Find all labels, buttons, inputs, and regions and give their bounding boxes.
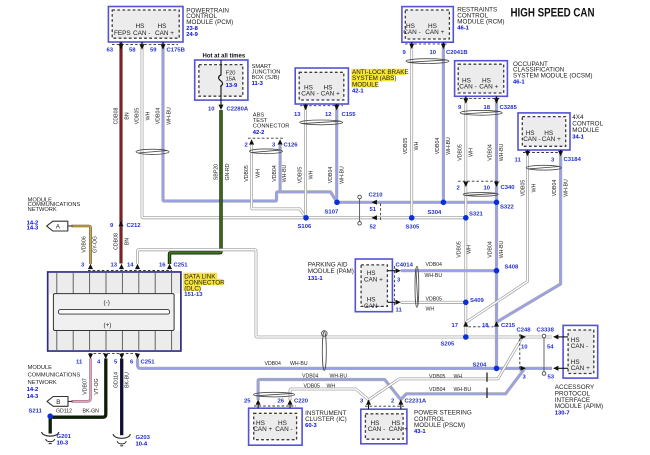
title HIGH SPEED CAN xyxy=(511,6,595,20)
svg-text:14-2: 14-2 xyxy=(27,387,39,393)
svg-text:MODULE (RCM): MODULE (RCM) xyxy=(457,18,504,25)
svg-text:GD114: GD114 xyxy=(114,372,120,388)
module PSCM (Power Steering Control Module) xyxy=(360,398,472,444)
ground G201 xyxy=(42,432,72,447)
wire CDB08 BN from PCM pin 63 to DLC pin 13 xyxy=(120,43,123,264)
svg-text:CAN -: CAN - xyxy=(523,136,540,143)
rotated wire labels above DLC xyxy=(82,233,131,253)
svg-text:CONNECTOR: CONNECTOR xyxy=(253,124,290,130)
svg-text:WH: WH xyxy=(414,141,420,150)
svg-text:B: B xyxy=(56,399,60,406)
svg-text:MODULE (PCM): MODULE (PCM) xyxy=(186,19,233,26)
wire GD114 BK-BU from DLC pin 5 to ground G203 xyxy=(120,359,123,436)
module APIM (Accessory Protocol Interface Module) xyxy=(553,325,603,416)
svg-text:46-1: 46-1 xyxy=(513,80,525,86)
svg-text:WH-BU: WH-BU xyxy=(454,387,472,393)
svg-text:18: 18 xyxy=(484,105,491,111)
wire VDB04 WH-BU from PAM pin 3 to S408 xyxy=(401,269,497,272)
svg-text:14-3: 14-3 xyxy=(27,226,39,232)
svg-text:14: 14 xyxy=(127,263,134,269)
svg-text:13: 13 xyxy=(294,112,301,118)
labels on PAM wires xyxy=(425,262,443,313)
node A module communications network xyxy=(27,197,81,231)
wire VDB04 WH-BU from ABS module pin 12 to S107 xyxy=(335,104,338,202)
svg-text:BK-BU: BK-BU xyxy=(125,372,131,388)
module OCSM (Occupant Classification System Module) xyxy=(455,61,593,111)
splice S205 xyxy=(441,334,469,348)
svg-text:CAN +: CAN + xyxy=(364,277,383,284)
svg-text:Hot at all times: Hot at all times xyxy=(203,54,246,60)
svg-text:C4014: C4014 xyxy=(396,262,414,268)
module PAM (Parking Aid Module) xyxy=(308,259,414,314)
svg-text:VT-OG: VT-OG xyxy=(94,378,100,394)
wire VDB04 WH-BU from IC pin 25 right to PSCM pin 2 then to C248 pin 3 xyxy=(258,369,524,400)
in-line connector C340 xyxy=(457,181,516,191)
splice S321 xyxy=(463,212,483,221)
svg-text:WH-BU: WH-BU xyxy=(282,164,288,182)
svg-text:VDB04: VDB04 xyxy=(302,374,319,380)
rotated wire labels below RCM xyxy=(403,137,452,155)
wire VDB05 WH from DLC pin 14 up and right, down, then white bus to S205, C248 pin 10, APIM HS CAN- xyxy=(138,250,553,337)
rotated wire labels below 4X4 xyxy=(521,179,570,197)
svg-text:58: 58 xyxy=(129,48,136,54)
splice S107 xyxy=(325,200,340,216)
svg-text:11: 11 xyxy=(76,360,83,366)
svg-text:C210: C210 xyxy=(369,193,384,199)
svg-text:GN-RD: GN-RD xyxy=(225,163,231,180)
svg-text:VDB04: VDB04 xyxy=(328,167,334,184)
svg-text:CAN +: CAN + xyxy=(542,136,561,143)
svg-text:VDB04: VDB04 xyxy=(265,361,282,367)
svg-text:WH: WH xyxy=(426,307,435,313)
svg-text:VDB06: VDB06 xyxy=(82,236,88,253)
svg-text:WH: WH xyxy=(309,170,315,179)
svg-text:C2041B: C2041B xyxy=(446,50,468,56)
svg-text:S205: S205 xyxy=(441,342,455,348)
in-line connector C210 xyxy=(358,193,384,231)
svg-text:NETWORK: NETWORK xyxy=(28,207,57,213)
svg-text:13-9: 13-9 xyxy=(226,83,238,89)
svg-text:VDB05: VDB05 xyxy=(403,138,409,155)
svg-text:C175B: C175B xyxy=(167,48,185,54)
svg-text:VDB04: VDB04 xyxy=(488,144,494,161)
svg-text:C2280A: C2280A xyxy=(227,107,249,113)
rotated wire labels SBP20 GN-RD xyxy=(214,163,232,180)
svg-text:46-1: 46-1 xyxy=(457,25,469,31)
twisted pair marker below 4X4 module xyxy=(526,165,561,170)
labels on VDB04 bottom bus xyxy=(265,361,308,367)
svg-text:S305: S305 xyxy=(406,224,420,230)
svg-text:17: 17 xyxy=(452,323,459,329)
svg-text:VDB05: VDB05 xyxy=(304,383,321,389)
svg-text:G201: G201 xyxy=(57,434,72,440)
svg-text:12: 12 xyxy=(325,112,332,118)
svg-text:VDB05: VDB05 xyxy=(298,167,304,184)
splice S106 xyxy=(298,215,312,230)
svg-text:S204: S204 xyxy=(473,363,487,369)
svg-text:CAN -: CAN - xyxy=(403,29,420,36)
svg-text:10: 10 xyxy=(208,107,215,113)
svg-text:(DLC): (DLC) xyxy=(184,285,201,292)
svg-text:S321: S321 xyxy=(469,212,483,218)
svg-text:WH-BU: WH-BU xyxy=(499,143,505,161)
svg-text:10: 10 xyxy=(484,185,491,191)
svg-text:VDB04: VDB04 xyxy=(435,138,441,155)
svg-text:CLUSTER (IC): CLUSTER (IC) xyxy=(305,416,347,423)
svg-text:WH-BU: WH-BU xyxy=(446,137,452,155)
twist tick on VDB05 line right side xyxy=(486,373,488,382)
splice S305 xyxy=(406,215,420,230)
svg-text:C3285: C3285 xyxy=(500,105,518,111)
svg-text:COMMUNICATIONS: COMMUNICATIONS xyxy=(28,373,81,379)
DLC yellow highlighted name xyxy=(183,273,225,293)
svg-text:WH: WH xyxy=(469,148,475,157)
svg-text:CAN -: CAN - xyxy=(275,426,292,433)
rotated wire labels between S321 and S409 xyxy=(457,240,506,258)
svg-text:VDB05: VDB05 xyxy=(429,374,446,380)
svg-text:CAN -: CAN - xyxy=(133,30,150,37)
svg-text:VDB04: VDB04 xyxy=(426,262,443,268)
svg-text:16: 16 xyxy=(159,263,166,269)
fuse box SJB with fuse F20 xyxy=(195,54,281,113)
svg-text:WH: WH xyxy=(146,111,152,120)
svg-text:53: 53 xyxy=(548,375,555,381)
rotated wire labels below OCSM xyxy=(458,143,506,161)
svg-text:GY-OG: GY-OG xyxy=(93,236,99,253)
labels on VDB05 PSCM-C248 line xyxy=(429,374,462,380)
svg-text:52: 52 xyxy=(370,224,377,230)
svg-text:WH: WH xyxy=(467,245,473,254)
svg-text:CAN +: CAN + xyxy=(155,30,174,37)
svg-text:11: 11 xyxy=(515,158,522,164)
svg-text:CAN -: CAN - xyxy=(364,303,381,310)
splice S304 xyxy=(428,200,447,216)
svg-text:S107: S107 xyxy=(325,210,339,216)
svg-text:42-1: 42-1 xyxy=(352,89,364,95)
twisted pair marker below ABS module xyxy=(300,120,343,125)
module PCM (Powertrain Control Module) xyxy=(107,7,234,54)
module IC (Instrument Cluster) xyxy=(244,398,347,445)
ground G203 xyxy=(113,434,151,447)
svg-text:C2231A: C2231A xyxy=(405,398,427,404)
svg-text:S106: S106 xyxy=(298,224,312,230)
svg-text:C3338: C3338 xyxy=(537,328,555,334)
label GD112 BK-GN xyxy=(56,409,99,415)
svg-text:S408: S408 xyxy=(505,264,519,270)
svg-text:S409: S409 xyxy=(470,298,484,304)
svg-text:WH-BU: WH-BU xyxy=(330,374,348,380)
svg-text:VDB04: VDB04 xyxy=(429,387,446,393)
svg-text:C3184: C3184 xyxy=(564,157,582,163)
wire VDB04 WH-BU from RCM pin 10 to S304 xyxy=(442,43,445,203)
module 4X4 control module xyxy=(515,113,604,164)
svg-text:CAN +: CAN + xyxy=(571,365,590,372)
rotated wire labels below ABS xyxy=(298,166,346,184)
wire VDB04 WH-BU from 4X4 pin 3 down then diagonal to C215 pin 18 xyxy=(497,150,560,321)
svg-text:10-4: 10-4 xyxy=(136,441,148,447)
svg-text:11-3: 11-3 xyxy=(252,81,264,87)
svg-text:SYSTEM MODULE (OCSM): SYSTEM MODULE (OCSM) xyxy=(513,73,592,80)
splice S204 xyxy=(473,363,500,372)
svg-text:WH-BU: WH-BU xyxy=(499,240,505,258)
svg-text:HIGH SPEED CAN: HIGH SPEED CAN xyxy=(511,6,595,20)
wire VDB05 WH from PAM pin 11 to S409 xyxy=(401,301,466,304)
svg-text:63: 63 xyxy=(107,48,114,54)
wire VDB05 WH from OCSM pin 9 through C340 pin 2, S321, S409, C215 pin 17 to S205 xyxy=(464,97,467,337)
svg-text:BN: BN xyxy=(125,112,131,119)
svg-text:CDB08: CDB08 xyxy=(114,108,120,125)
connector DLC (Data Link Connector) xyxy=(48,272,204,351)
svg-text:CAN +: CAN + xyxy=(253,426,272,433)
svg-text:59: 59 xyxy=(150,48,157,54)
svg-text:C155: C155 xyxy=(342,112,357,118)
twisted pair marker on bus pair (vertical loop at x=324) xyxy=(322,331,328,371)
svg-text:11: 11 xyxy=(396,308,403,314)
svg-text:151-13: 151-13 xyxy=(184,292,203,298)
module ABS (Anti-Lock Brake System) xyxy=(294,68,409,118)
svg-text:FEPS: FEPS xyxy=(114,30,131,37)
wire VDB05 WH from ABS test connector C126 pin 2 to S106 xyxy=(252,145,306,218)
wire VDB07 VT-OG from DLC pin 11 to arrow B xyxy=(72,359,91,402)
splice S408 xyxy=(494,264,519,273)
svg-text:VDB05: VDB05 xyxy=(457,241,463,258)
svg-text:WH: WH xyxy=(532,183,538,192)
svg-text:CAN +: CAN + xyxy=(479,83,498,90)
svg-text:CAN -: CAN - xyxy=(368,426,385,433)
svg-text:54: 54 xyxy=(547,345,554,351)
svg-text:C251: C251 xyxy=(174,263,189,269)
wire VDB05 WH from ABS module pin 13 to S106 xyxy=(304,104,307,217)
twisted pair marker below OCSM xyxy=(460,110,502,115)
in-line connector C215 xyxy=(452,321,516,329)
svg-text:VDB05: VDB05 xyxy=(135,108,141,125)
svg-text:WH-BU: WH-BU xyxy=(290,361,308,367)
in-line connector C248 xyxy=(517,328,532,381)
svg-text:C215: C215 xyxy=(501,323,516,329)
svg-text:CAN +: CAN + xyxy=(425,29,444,36)
svg-text:G203: G203 xyxy=(136,435,151,441)
svg-text:VDB05: VDB05 xyxy=(521,180,527,197)
svg-text:WH-BU: WH-BU xyxy=(425,273,443,279)
svg-text:34-1: 34-1 xyxy=(572,134,584,140)
svg-text:WH-BU: WH-BU xyxy=(167,107,173,125)
svg-text:VDB05: VDB05 xyxy=(244,165,250,182)
svg-text:(-): (-) xyxy=(104,300,110,307)
svg-text:25: 25 xyxy=(244,398,251,404)
svg-text:60-3: 60-3 xyxy=(305,423,317,429)
twisted pair marker below C126 xyxy=(250,149,283,154)
svg-text:VDB04: VDB04 xyxy=(552,180,558,197)
svg-text:S322: S322 xyxy=(500,205,514,211)
svg-text:13: 13 xyxy=(111,263,118,269)
rotated wire labels below PCM xyxy=(114,107,173,125)
wire S211 to ground G201 xyxy=(49,416,52,434)
wire VDB05 WH from 4X4 pin 11 down then diagonal to C215 pin 17 xyxy=(466,150,527,322)
svg-text:(+): (+) xyxy=(104,322,112,329)
svg-text:VDB04: VDB04 xyxy=(488,241,494,258)
svg-text:GD112: GD112 xyxy=(56,409,72,415)
wire SBP20 GN-RD from SJB fuse to DLC pin 16 xyxy=(170,110,222,264)
svg-text:15A: 15A xyxy=(226,77,236,83)
svg-text:WH-BU: WH-BU xyxy=(564,179,570,197)
svg-text:NETWORK: NETWORK xyxy=(28,380,57,386)
splice S211 xyxy=(29,409,54,419)
splice S322 xyxy=(494,200,515,211)
svg-text:26: 26 xyxy=(278,398,285,404)
svg-text:VDB05: VDB05 xyxy=(426,297,443,303)
connector C251 top of DLC xyxy=(81,263,188,271)
connector C126 ABS test connector xyxy=(245,113,299,149)
module RCM (Restraints Control Module) xyxy=(402,7,505,57)
svg-text:WH: WH xyxy=(327,383,336,389)
svg-text:S211: S211 xyxy=(29,409,43,415)
svg-text:VDB05: VDB05 xyxy=(458,144,464,161)
wire GD112 BK-GN from DLC pin 4 to S211 xyxy=(50,359,106,418)
twist tick on VDB04 line right side xyxy=(486,388,488,398)
svg-text:10: 10 xyxy=(430,50,437,56)
svg-text:14-3: 14-3 xyxy=(27,394,39,400)
rotated wire labels below C126 xyxy=(244,164,288,182)
svg-text:MODULE: MODULE xyxy=(352,82,379,89)
svg-text:SBP20: SBP20 xyxy=(214,164,220,180)
svg-text:10-3: 10-3 xyxy=(57,440,69,446)
twisted pair marker below C340 xyxy=(463,193,498,197)
twisted pair marker above IC xyxy=(254,392,295,397)
svg-text:CAN -: CAN - xyxy=(571,343,588,350)
wire VDB04 WH-BU bus: PCM pin 59 down, right, stair up at C126 stub, to S107 then S304 S322 xyxy=(163,43,496,203)
connector C251 bottom of DLC xyxy=(76,354,155,366)
rotated wire labels below DLC xyxy=(83,372,131,395)
svg-text:WH: WH xyxy=(454,374,463,380)
wire VDB06 GY-OG from arrow A to DLC pin 3 xyxy=(72,226,91,264)
svg-text:BN: BN xyxy=(125,238,131,245)
svg-text:MODULE (PSCM): MODULE (PSCM) xyxy=(414,422,465,429)
svg-text:131-1: 131-1 xyxy=(308,276,324,282)
wire VDB05 WH bus: PCM pin 58 down, right through S106 S305 to S321 xyxy=(142,43,465,218)
svg-text:MODULE (APIM): MODULE (APIM) xyxy=(555,403,603,410)
svg-text:51: 51 xyxy=(370,207,377,213)
in-line connector C3338 xyxy=(537,328,555,381)
wire VDB04 WH-BU from OCSM pin 18 through C340 pin 10, S322, S408, C215 pin 18 to S204 xyxy=(495,97,498,369)
svg-text:MODULE (PAM): MODULE (PAM) xyxy=(308,268,354,275)
splice S409 xyxy=(463,298,484,305)
twisted pair marker below PCM xyxy=(136,149,169,154)
wire VDB05 WH from IC pin 26 right to PSCM pin 3 then up to white bus at C248 pin 10 xyxy=(290,337,522,400)
labels on VDB04 PSCM-C248 line xyxy=(429,387,471,393)
svg-text:10: 10 xyxy=(521,345,528,351)
labels on VDB04 IC-PSCM line xyxy=(302,374,347,380)
svg-text:18: 18 xyxy=(482,323,489,329)
svg-text:C220: C220 xyxy=(294,398,309,404)
svg-text:MODULE: MODULE xyxy=(28,365,53,371)
svg-text:VDB04: VDB04 xyxy=(272,165,278,182)
svg-text:24-9: 24-9 xyxy=(186,32,198,38)
svg-text:WH: WH xyxy=(256,169,262,178)
wire VDB04 WH-BU stub from C126 pin 3 down to blue bus xyxy=(279,145,282,192)
svg-text:CAN -: CAN - xyxy=(459,83,476,90)
labels on VDB05 IC-PSCM line xyxy=(304,383,336,389)
twisted pair marker right of PAM (vertical) xyxy=(415,266,419,307)
svg-text:BK-GN: BK-GN xyxy=(83,409,100,415)
svg-text:CAN +: CAN + xyxy=(389,426,408,433)
svg-text:VDB04: VDB04 xyxy=(156,108,162,125)
svg-text:C248: C248 xyxy=(517,328,532,334)
wire VDB05 WH from RCM pin 9 to S305 xyxy=(410,43,413,218)
svg-text:C340: C340 xyxy=(501,185,516,191)
svg-text:43-1: 43-1 xyxy=(414,429,426,435)
svg-text:CAN +: CAN + xyxy=(321,90,340,97)
in-line connector C212 on CDB08 xyxy=(110,221,141,229)
node B module communications network xyxy=(27,365,81,406)
svg-text:42-2: 42-2 xyxy=(253,130,265,136)
svg-text:C212: C212 xyxy=(127,223,142,229)
svg-text:CAN -: CAN - xyxy=(301,90,318,97)
svg-text:WH-BU: WH-BU xyxy=(340,166,346,184)
wire VDB04 WH-BU from DLC pin 6 right along bottom to S204, C248 pin 3, APIM HS CAN+ xyxy=(138,359,553,369)
svg-text:VDB07: VDB07 xyxy=(83,378,89,395)
svg-text:C251: C251 xyxy=(141,360,156,366)
svg-text:CDB08: CDB08 xyxy=(114,233,120,250)
svg-text:S304: S304 xyxy=(428,210,442,216)
svg-text:130-7: 130-7 xyxy=(555,411,570,417)
svg-text:C126: C126 xyxy=(284,142,299,148)
svg-text:MODULE: MODULE xyxy=(572,127,599,134)
twisted pair marker below RCM xyxy=(406,59,449,64)
